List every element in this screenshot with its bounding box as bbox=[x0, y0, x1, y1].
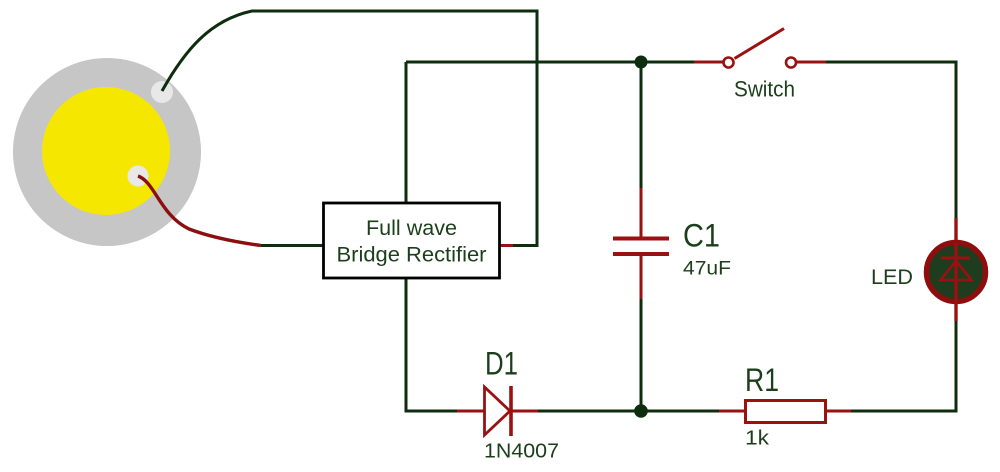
piezo disc ceramic bbox=[42, 87, 170, 215]
svg-text:Full wave: Full wave bbox=[366, 217, 457, 240]
svg-text:LED: LED bbox=[871, 266, 913, 289]
svg-text:47uF: 47uF bbox=[683, 259, 731, 280]
wire: green lead from piezo to top rail bbox=[162, 11, 537, 246]
wire: rectifier top to top rail bbox=[405, 62, 408, 203]
wire: rectifier bottom to bottom rail bbox=[406, 278, 457, 411]
resistor R1 bbox=[719, 401, 851, 423]
diode D1 bbox=[457, 386, 538, 436]
svg-text:Switch: Switch bbox=[734, 77, 795, 102]
wire: red stub into rectifier right side bbox=[499, 244, 513, 247]
wire: top rail to switch bbox=[406, 61, 694, 64]
LED D2 bbox=[927, 218, 986, 321]
wire: red lead from piezo bottom pad bbox=[138, 176, 261, 246]
svg-text:C1: C1 bbox=[683, 218, 720, 254]
switch S1 bbox=[694, 29, 826, 68]
capacitor C1 bbox=[613, 62, 669, 411]
piezo solder pad top bbox=[151, 81, 173, 103]
piezo disc outer ring bbox=[13, 58, 201, 246]
junction dot top bbox=[635, 56, 648, 69]
svg-text:Bridge Rectifier: Bridge Rectifier bbox=[337, 244, 487, 267]
piezo solder pad bottom bbox=[128, 166, 149, 187]
wire: LED to bottom rail bbox=[851, 321, 956, 411]
wire: switch to right rail bbox=[826, 62, 956, 218]
wire: diode to center junction bbox=[538, 410, 719, 413]
wire: green segment into rectifier left side bbox=[261, 244, 324, 247]
op box: full wave bridge rectifier U1 bbox=[324, 203, 500, 278]
svg-text:R1: R1 bbox=[745, 362, 779, 398]
svg-text:1k: 1k bbox=[745, 428, 770, 450]
junction dot bottom bbox=[634, 404, 648, 418]
svg-text:1N4007: 1N4007 bbox=[484, 441, 559, 463]
svg-text:D1: D1 bbox=[485, 346, 518, 382]
